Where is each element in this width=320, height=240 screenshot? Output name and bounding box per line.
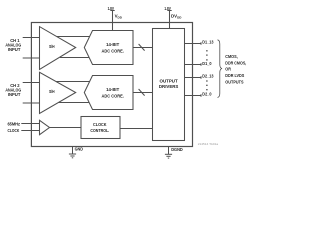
svg-text:GND: GND bbox=[75, 146, 83, 151]
svg-text:1.8V: 1.8V bbox=[164, 6, 171, 11]
svg-text:CLOCK: CLOCK bbox=[8, 128, 20, 133]
wire S/H1 to ADC1 minus bbox=[60, 57, 90, 59]
svg-text:INPUT: INPUT bbox=[8, 47, 21, 52]
svg-text:CLOCK: CLOCK bbox=[93, 122, 107, 127]
svg-text:D1_13: D1_13 bbox=[202, 39, 214, 44]
svg-text:D2_0: D2_0 bbox=[202, 92, 212, 97]
wire clock input 2 bbox=[21, 130, 39, 132]
svg-text:VDD: VDD bbox=[115, 14, 123, 20]
svg-text:1.8V: 1.8V bbox=[108, 6, 115, 11]
svg-text:ADC CORE.: ADC CORE. bbox=[102, 48, 124, 53]
clock control block bbox=[81, 117, 120, 139]
svg-text:CONTROL.: CONTROL. bbox=[90, 128, 109, 133]
wire CH2 analog input - bbox=[23, 102, 40, 104]
wire output D1_0 bbox=[185, 63, 202, 66]
wire ADC1 to output drivers bbox=[133, 47, 153, 49]
wire CH1 analog input - bbox=[23, 57, 40, 59]
svg-text:D2_13: D2_13 bbox=[202, 74, 214, 79]
S/H amplifier CH2 bbox=[40, 72, 76, 113]
wire ADC2 to output drivers bbox=[133, 92, 153, 94]
svg-text:14-BIT: 14-BIT bbox=[106, 42, 119, 47]
bus slash CH2 bbox=[139, 89, 145, 96]
svg-text:OUTPUTS: OUTPUTS bbox=[225, 80, 243, 85]
outer box (IC boundary) bbox=[31, 23, 192, 147]
wire output D1_13 bbox=[185, 42, 202, 45]
supply VDD wire bbox=[110, 11, 114, 31]
svg-text:DDR LVDS: DDR LVDS bbox=[225, 73, 244, 78]
wire clock input 1 bbox=[21, 123, 39, 125]
wire clock buffer to clock control bbox=[50, 127, 82, 129]
svg-text:ADC CORE.: ADC CORE. bbox=[102, 93, 124, 98]
svg-text:OR: OR bbox=[225, 67, 231, 72]
wire S/H2 to ADC2 plus bbox=[55, 81, 90, 83]
wire S/H1 to ADC1 plus bbox=[57, 36, 91, 38]
svg-text:65MHz: 65MHz bbox=[7, 122, 20, 127]
svg-text:DVDD: DVDD bbox=[171, 14, 182, 20]
wire output D2_0 bbox=[185, 94, 202, 97]
svg-text:S/H: S/H bbox=[49, 44, 55, 49]
svg-text:S/H: S/H bbox=[49, 89, 55, 94]
14-bit ADC core 1 bbox=[84, 31, 133, 65]
wire S/H2 to ADC2 minus bbox=[59, 102, 90, 104]
bus slash CH1 bbox=[139, 44, 145, 51]
14-bit ADC core 2 bbox=[84, 76, 133, 110]
output group brace bbox=[218, 40, 223, 98]
wire output D2_13 bbox=[185, 76, 202, 79]
svg-text:CMOS,: CMOS, bbox=[225, 54, 237, 59]
ground DGND bbox=[165, 147, 172, 159]
node dots D2 bbox=[206, 80, 207, 90]
svg-text:DRIVERS: DRIVERS bbox=[159, 84, 178, 89]
wire CH1 analog input + bbox=[23, 37, 40, 39]
svg-text:D1_0: D1_0 bbox=[202, 61, 212, 66]
node dots D1 bbox=[206, 50, 207, 60]
svg-text:14-BIT: 14-BIT bbox=[106, 87, 119, 92]
supply DVDD wire bbox=[167, 11, 171, 29]
svg-text:INPUT: INPUT bbox=[8, 92, 21, 97]
svg-text:214514 TA01a: 214514 TA01a bbox=[198, 142, 219, 146]
svg-text:OUTPUT: OUTPUT bbox=[160, 78, 178, 83]
svg-text:DDR CMOS,: DDR CMOS, bbox=[225, 60, 246, 65]
ground GND bbox=[69, 147, 76, 158]
clock buffer bbox=[40, 120, 50, 134]
output drivers block bbox=[153, 29, 185, 141]
svg-text:DGND: DGND bbox=[171, 147, 183, 152]
S/H amplifier CH1 bbox=[40, 27, 76, 70]
wire clock control to output drivers bbox=[121, 128, 153, 130]
wire CH2 analog input + bbox=[23, 82, 40, 84]
